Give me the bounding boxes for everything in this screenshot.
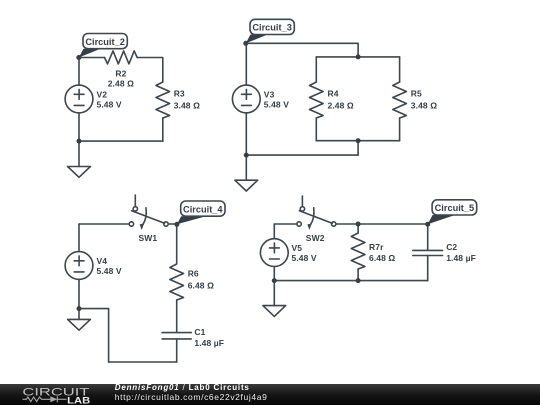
net flag Circuit_2 [79, 34, 128, 58]
node D (Circuit_5 flag node) [425, 222, 430, 227]
resistor R2 [105, 51, 138, 64]
svg-text:V2: V2 [97, 89, 108, 99]
svg-text:3.48 Ω: 3.48 Ω [174, 101, 200, 111]
svg-text:5.48 V: 5.48 V [97, 266, 122, 276]
wire R7r top stub [357, 224, 359, 233]
svg-text:C2: C2 [446, 242, 457, 252]
switch SW1 [134, 195, 136, 207]
wire R3 bottom to bottom rail [162, 118, 164, 141]
svg-text:Circuit_4: Circuit_4 [183, 204, 223, 214]
svg-text:1.48 µF: 1.48 µF [194, 338, 224, 348]
svg-text:Circuit_2: Circuit_2 [85, 37, 125, 47]
svg-text:R3: R3 [174, 89, 185, 99]
wire node down to R6 [176, 224, 178, 264]
svg-text:5.48 V: 5.48 V [264, 99, 289, 109]
ground (Circuit_5) [263, 306, 286, 317]
svg-text:http://circuitlab.com/c6e22v2f: http://circuitlab.com/c6e22v2fuj4a9 [115, 392, 267, 402]
wire top-left node to R2 [79, 57, 105, 59]
switch SW2 [301, 196, 303, 207]
wire V3 bottom [245, 113, 247, 155]
capacitor C1 [162, 332, 191, 334]
wire junction to riser [79, 308, 109, 310]
wire V4 top to switch [79, 223, 129, 225]
wire V5 top to switch [274, 223, 297, 225]
wire R2 to top-right corner [137, 58, 163, 83]
svg-text:R2: R2 [115, 69, 126, 79]
net flag Circuit_5 [428, 200, 477, 224]
junction Circuit_2 bottom [77, 139, 82, 144]
wire R4 bottom stub [315, 118, 317, 141]
net flag Circuit_4 [177, 201, 225, 224]
wire switch to node [168, 223, 177, 225]
resistor R6 [170, 264, 184, 300]
svg-text:6.48 Ω: 6.48 Ω [369, 253, 395, 263]
wire bottom rail [79, 140, 163, 142]
footer bar [0, 384, 540, 405]
net flag Circuit_3 [246, 19, 294, 43]
svg-text:R7r: R7r [369, 242, 384, 252]
wire bottom rail [274, 280, 427, 282]
wire R7r bottom stub [357, 269, 359, 281]
svg-text:SW1: SW1 [139, 233, 158, 243]
wire node to V2 top [78, 58, 80, 86]
wire V4 top stub [78, 224, 80, 252]
wire V5 bottom [273, 267, 275, 281]
resistor R3 [156, 82, 170, 118]
wire rail drop to bottom wire [357, 141, 359, 155]
junction Circuit_5 R7r top [356, 222, 361, 227]
wire ground stem [78, 141, 80, 166]
resistor R5 [393, 82, 407, 118]
voltage source V3 [232, 85, 260, 113]
svg-text:LAB: LAB [67, 396, 90, 405]
logo squiggle (resistor + diode) [23, 396, 67, 402]
wire C2 bottom [427, 256, 429, 281]
wire V4 bottom [78, 279, 80, 308]
wire left riser [108, 309, 110, 362]
svg-text:V3: V3 [264, 89, 275, 99]
svg-text:R5: R5 [411, 89, 422, 99]
junction Circuit_3 bottom rail [356, 138, 361, 143]
svg-text:V4: V4 [97, 256, 108, 266]
ground (Circuit_3) [235, 180, 258, 191]
wire R5 top stub [399, 57, 401, 82]
voltage source V5 [260, 239, 288, 267]
wire ground stem [245, 155, 247, 180]
resistor R7r [351, 233, 365, 269]
wire R4 top stub [315, 57, 317, 82]
wire ground stem [273, 281, 275, 306]
wire bottom rail [316, 140, 399, 142]
svg-text:SW2: SW2 [306, 233, 325, 243]
wire R6 to C1 [176, 300, 178, 333]
wire R5 bottom stub [399, 118, 401, 141]
wire bottom rail [109, 361, 177, 363]
junction Circuit_5 R7r bottom [356, 278, 361, 283]
node B (Circuit_3 flag node) [243, 41, 248, 46]
junction Circuit_4 V4 bottom [77, 306, 82, 311]
svg-text:3.48 Ω: 3.48 Ω [411, 101, 437, 111]
wire switch to node at C2 [336, 223, 428, 225]
wire V2 bottom [78, 113, 80, 141]
svg-text:V5: V5 [292, 243, 303, 253]
wire V5 top stub [273, 224, 275, 239]
wire ground stem [78, 309, 80, 320]
junction Circuit_5 V5 bottom [272, 278, 277, 283]
wire top from node to corner [246, 43, 358, 57]
node C (Circuit_4 flag node) [174, 222, 179, 227]
capacitor C2 [413, 249, 443, 251]
svg-text:C1: C1 [194, 327, 205, 337]
junction Circuit_3 V3 bottom [244, 153, 249, 158]
svg-text:Circuit_5: Circuit_5 [435, 203, 475, 213]
svg-text:2.48 Ω: 2.48 Ω [328, 101, 354, 111]
wire top rail [316, 56, 399, 58]
svg-text:2.48 Ω: 2.48 Ω [108, 79, 134, 89]
wire node to V3 top [245, 43, 247, 85]
svg-text:5.48 V: 5.48 V [97, 99, 122, 109]
node A (Circuit_2 flag node) [76, 55, 81, 60]
wire bottom [246, 154, 358, 156]
junction Circuit_3 top rail [356, 54, 361, 59]
svg-text:DennisFong01 / Lab0 Circuits: DennisFong01 / Lab0 Circuits [115, 383, 250, 392]
resistor R4 [310, 82, 324, 118]
svg-text:R4: R4 [328, 89, 339, 99]
ground (Circuit_4) [68, 319, 91, 330]
voltage source V2 [65, 85, 93, 113]
svg-text:5.48 V: 5.48 V [292, 253, 317, 263]
svg-text:R6: R6 [188, 268, 199, 278]
svg-text:6.48 Ω: 6.48 Ω [188, 280, 214, 290]
svg-text:1.48 µF: 1.48 µF [446, 253, 476, 263]
wire C2 top [427, 224, 429, 250]
wire C1 bottom [176, 339, 178, 362]
svg-text:Circuit_3: Circuit_3 [252, 23, 292, 33]
voltage source V4 [65, 252, 93, 280]
ground (Circuit_2) [68, 167, 91, 178]
